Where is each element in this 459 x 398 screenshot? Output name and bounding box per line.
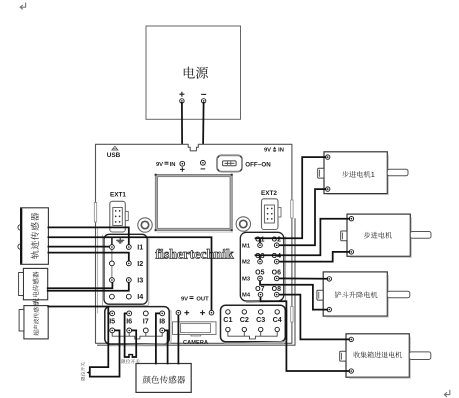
counter block shadow: [224, 310, 287, 344]
input block I5-I8 shadow: [108, 311, 171, 346]
O1 pin M1 left: [258, 243, 263, 248]
O4 pin M2 right: [274, 259, 279, 264]
board inner gray line A: [97, 228, 99, 313]
svg-text:EXT2: EXT2: [261, 190, 277, 197]
C3 bottom pin: [259, 327, 263, 331]
svg-text:M2: M2: [242, 260, 250, 266]
I8 top pin: [160, 311, 165, 316]
bucket lift motor terminal bottom: [327, 307, 331, 311]
EXT2 connector inner: [264, 205, 274, 223]
bucket lift motor body: [323, 272, 387, 316]
camera connector bottom tab: [191, 335, 201, 336]
color sensor label: [143, 376, 186, 384]
9V OUT left pin: [176, 310, 181, 315]
wire photo sensor b to I3 right: [48, 280, 129, 291]
svg-text:C2: C2: [240, 315, 249, 324]
EXT1 pins: [115, 210, 117, 212]
motor output block outline: [240, 232, 283, 301]
display outer hairline: [155, 174, 232, 230]
svg-text:EXT1: EXT1: [110, 192, 126, 199]
track sensor box 轨迹传感器: [21, 208, 49, 264]
svg-text:9V: 9V: [264, 147, 271, 153]
svg-text:I5: I5: [109, 317, 115, 326]
C4 top pin: [275, 310, 279, 314]
wire O1 to motor1 top: [256, 238, 261, 245]
display bottom shadow: [157, 231, 233, 233]
power supply label 电源: [184, 67, 208, 79]
camera connector outer: [173, 322, 217, 335]
input block I1-I4 shadow: [109, 239, 149, 306]
OFF-ON switch inner: [223, 161, 237, 166]
svg-text:IN: IN: [170, 162, 176, 168]
O5 pin M3 left: [258, 276, 263, 281]
wire track sensor 4 to I2 right: [48, 253, 128, 264]
board inner gray line B: [102, 235, 104, 307]
svg-text:I6: I6: [126, 317, 132, 326]
wire I6 top to limit switch: [125, 313, 130, 357]
display frame band: [156, 176, 231, 230]
bucket lift motor label 铲斗升降电机: [335, 291, 378, 298]
C2 top pin: [242, 310, 246, 314]
ultrasonic sensor label: [33, 301, 38, 335]
wire O7 to motor4 bottom: [261, 295, 350, 371]
board right edge slot: [291, 200, 293, 218]
svg-text:I1: I1: [137, 243, 143, 252]
power supply 电源 box: [146, 26, 241, 119]
I3 right pin: [126, 278, 131, 283]
stepper motor 2 terminal top: [349, 217, 353, 221]
C4 bottom pin: [275, 327, 279, 331]
svg-text:O6: O6: [272, 269, 281, 276]
power - terminal label: [201, 93, 206, 95]
svg-text:I7: I7: [143, 317, 149, 326]
display corner marks: [155, 174, 233, 232]
wire O3 to motor2 top: [256, 255, 261, 261]
left screw hole: [138, 218, 152, 232]
svg-text:I8: I8: [159, 317, 165, 326]
I4 right pin: [126, 294, 131, 299]
stepper motor 2 body: [347, 214, 410, 256]
svg-text:C4: C4: [273, 315, 282, 324]
collect box motor body: [346, 334, 409, 377]
svg-text:M4: M4: [242, 293, 251, 299]
power + terminal label: [179, 92, 184, 97]
wire I8 bottom to color sensor: [162, 330, 167, 363]
stepper motor 2 label: [364, 232, 392, 239]
O2 pin M1 right: [274, 243, 279, 248]
OFF-ON switch slider: [225, 162, 235, 166]
photo sensor box 光电传感器: [23, 268, 47, 299]
I2 right pin: [126, 261, 131, 266]
EXT1 side tab: [125, 212, 128, 221]
EXT2 side tab: [278, 208, 281, 218]
display inner hairline: [158, 177, 230, 229]
I7 top pin: [143, 311, 148, 316]
wire track sensor 3 to I1 left: [48, 246, 112, 248]
svg-text:USB: USB: [107, 152, 121, 159]
O6 pin M3 right: [274, 276, 279, 281]
input block I1-I4 outline: [104, 234, 147, 304]
I8 bottom pin: [160, 328, 165, 333]
controller board outline with top notch: [96, 144, 292, 343]
EXT1 connector outer: [110, 201, 126, 232]
limit switch label left 限位开关: [81, 362, 85, 381]
paragraph mark bottom right: [444, 390, 450, 397]
collect box motor label 收集箱进退电机: [354, 351, 402, 357]
I6 top pin: [127, 311, 132, 316]
stepper motor 1 terminal bottom: [326, 187, 330, 191]
wire track sensor 2 to 9V OUT +: [48, 237, 211, 313]
track sensor left bump 2: [18, 244, 21, 249]
svg-text:O5: O5: [255, 269, 264, 276]
svg-text:I2: I2: [137, 259, 143, 268]
I2 left pin: [110, 261, 115, 266]
I1 left pin: [110, 245, 115, 250]
I7 bottom pin: [143, 328, 148, 333]
wire O5 to motor3 bottom: [260, 278, 327, 309]
wire I8 top to color sensor: [156, 313, 162, 363]
svg-text:CAMERA: CAMERA: [183, 340, 208, 346]
wire track sensor 1 to I1 right: [48, 227, 128, 247]
wire 9V OUT left pin to color sensor: [177, 314, 179, 364]
wire I6 bottom to limit switch: [129, 330, 136, 357]
stepper motor 1 label: [342, 171, 370, 178]
I5 bottom pin: [110, 328, 115, 333]
board right edge slot lower: [291, 307, 293, 323]
9V OUT plus signs: [184, 310, 205, 315]
ground symbol in I block: [116, 237, 124, 243]
limit switch symbol mid: [129, 355, 133, 357]
svg-text:M1: M1: [242, 243, 251, 249]
svg-text:1: 1: [371, 170, 375, 179]
EXT2 pins: [267, 208, 269, 210]
controller board shadow right+bottom: [97, 218, 295, 345]
minus under 9V IN pin: [201, 168, 206, 170]
wire ultrasonic to I5 top: [48, 307, 112, 314]
C1 bottom pin: [226, 327, 230, 331]
track sensor left bump 1: [18, 225, 21, 230]
wire I5 limit switch loop: [90, 313, 120, 376]
collect box motor terminal bottom: [349, 369, 353, 373]
stepper motor 1 body: [324, 152, 387, 194]
limit switch label mid 限位开关: [121, 359, 140, 363]
9V IN - pin: [201, 160, 206, 165]
9V OUT right pin: [209, 310, 214, 315]
plus under 9V IN pin: [180, 167, 185, 172]
O7 pin M4 left: [258, 292, 263, 297]
ultrasonic sensor left tab: [19, 310, 24, 332]
svg-text:O4: O4: [272, 253, 281, 260]
svg-text:9V: 9V: [181, 297, 188, 303]
I-block left bus line: [111, 250, 113, 278]
I1 right pin: [126, 245, 131, 250]
color sensor box 颜色传感器: [136, 364, 191, 393]
stepper motor 1 terminal top: [326, 155, 330, 159]
power - terminal: [201, 99, 205, 103]
limit switch symbol left: [87, 371, 91, 375]
ultrasonic sensor box 超声波传感器: [24, 306, 48, 339]
O3 pin M2 left: [258, 259, 263, 264]
stub wire W2 to I1 left: [111, 237, 113, 244]
OFF-ON switch body: [217, 155, 242, 171]
EXT2 connector outer: [262, 199, 279, 230]
counter block outline: [221, 305, 286, 342]
photo sensor left tab: [19, 273, 24, 296]
C3 top pin: [259, 310, 263, 314]
I3 left pin: [110, 278, 115, 283]
I5-I8 bottom bus: [112, 333, 162, 339]
C1-C4 bottom bus: [228, 332, 277, 339]
svg-text:OFF−ON: OFF−ON: [245, 161, 271, 168]
svg-text:IN: IN: [278, 147, 284, 153]
EXT1 connector inner: [113, 208, 123, 226]
wire O4 to motor2 bottom: [277, 252, 350, 262]
OFF-ON switch corner bevels: [218, 156, 242, 171]
I6 bottom pin: [127, 328, 132, 333]
wire power+ to 9V IN +: [181, 103, 183, 162]
input block I5-I8 outline: [105, 307, 169, 344]
right screw hole: [236, 217, 250, 231]
board left edge slot: [94, 203, 96, 223]
C2 bottom pin: [242, 327, 246, 331]
photo sensor label: [33, 272, 39, 305]
wire power- to 9V IN -: [202, 103, 205, 161]
svg-text:C1: C1: [223, 315, 232, 324]
I5 top pin: [110, 311, 115, 316]
9V IN + pin: [180, 161, 185, 166]
svg-text:C3: C3: [256, 315, 265, 324]
collect box motor terminal top: [349, 337, 353, 341]
camera connector inner: [181, 324, 211, 333]
C1 top pin: [226, 310, 230, 314]
svg-text:M3: M3: [242, 276, 251, 282]
paragraph mark top left: [20, 3, 25, 10]
svg-text:9V: 9V: [156, 162, 163, 168]
I4 left pin: [110, 294, 115, 299]
stepper motor 2 terminal bottom: [349, 250, 353, 254]
wire O2 to motor1 bottom: [277, 189, 326, 245]
svg-text:O8: O8: [272, 286, 281, 293]
svg-text:fishertechnik: fishertechnik: [155, 247, 234, 262]
wire O6 to motor3 top: [277, 277, 327, 279]
wire O8 to motor4 top: [277, 295, 349, 340]
bucket lift motor terminal top: [327, 277, 331, 281]
USB symbol: [112, 146, 118, 150]
power + terminal: [180, 99, 184, 103]
svg-text:O7: O7: [255, 286, 264, 293]
svg-text:I4: I4: [137, 292, 143, 301]
svg-text:OUT: OUT: [196, 297, 209, 303]
track sensor label: [31, 213, 39, 259]
motor output block shadow: [246, 237, 286, 303]
O8 pin M4 right: [274, 292, 279, 297]
wire photo sensor a to I3 left: [48, 280, 113, 288]
svg-text:I3: I3: [137, 276, 143, 285]
